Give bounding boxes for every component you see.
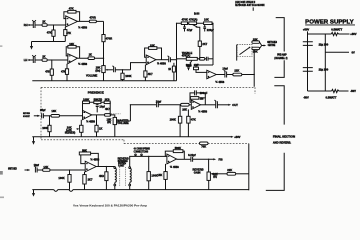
svg-text:1K: 1K (42, 55, 45, 59)
SWITCHES CENTRE label (267, 41, 277, 47)
bias resistor 100K U3b (170, 105, 182, 137)
master volume pot 10K(B) (107, 117, 131, 136)
resistor 4K7 below U2a (144, 65, 153, 81)
resistor 76K on dashed line (200, 142, 209, 149)
feedback resistor 22K U2a (145, 43, 162, 59)
op-amp U1b (1/2 4558) ch2 (68, 54, 88, 66)
reverb transformer coil 1 (114, 167, 116, 190)
svg-text:UNIT: UNIT (118, 164, 125, 168)
bias cap 10uF + resistor 2K7 to op-amp U2b (186, 63, 213, 72)
resistor 100K presence (83, 97, 90, 103)
svg-text:2K7: 2K7 (202, 42, 207, 46)
svg-text:SWITCHED: SWITCHED (8, 169, 17, 171)
resistor 14K reverb input (43, 165, 86, 171)
svg-text:10K: 10K (253, 50, 258, 54)
PSU capacitor pair 1 (303, 42, 313, 46)
junction to reverb gain pot (208, 159, 210, 172)
resistor 47K below op-amp U1a (64, 27, 71, 42)
resistor 47K below op-amp U1b (61, 64, 69, 81)
top rail with dropper resistor (308, 32, 357, 36)
feedback loop wires U3a (83, 102, 111, 115)
dashed left border (40, 87, 42, 140)
driver output wire (96, 166, 115, 168)
svg-text:10K: 10K (204, 18, 209, 22)
resistor 22K reverb mix (227, 168, 249, 175)
svg-text:15K: 15K (157, 173, 162, 177)
resistor 100K to ground (121, 70, 132, 81)
feedback resistor 560K U4b (165, 146, 184, 160)
4-8 OHM SPRING CONNECTIONS label (134, 147, 150, 156)
svg-text:(CHANNEL 2): (CHANNEL 2) (274, 57, 287, 60)
output capacitor U3b (201, 100, 229, 108)
output capacitor 10uF (216, 67, 233, 78)
svg-text:470R: 470R (90, 16, 96, 20)
output capacitor U2a (156, 56, 177, 62)
resistor 4K8 to rail (99, 167, 108, 190)
presence pot 50K(B) (94, 97, 103, 103)
svg-text:-50V: -50V (350, 89, 356, 93)
dashed bottom border right (124, 143, 249, 145)
resistor 18K return (51, 109, 83, 117)
op-amp U2b (1/2 4558) (207, 70, 225, 84)
resistor 10K bass (204, 18, 212, 25)
capacitor after volume wiper (113, 66, 131, 73)
svg-text:47K: 47K (191, 117, 196, 121)
resistor 470R ch1 output (89, 16, 96, 23)
svg-text:½ 4558: ½ 4558 (157, 61, 166, 65)
svg-text:1K: 1K (99, 127, 102, 131)
output wire ch2 with resistor 1K (78, 52, 105, 59)
svg-text:0.5WATT: 0.5WATT (331, 28, 342, 32)
node + resistor 47K to ground (ch2 input) (45, 60, 53, 81)
presence pot lower 10K (65, 120, 83, 137)
feedback resistor 47K ch1 (64, 7, 80, 22)
svg-text:4K8: 4K8 (99, 174, 104, 178)
svg-text:100K: 100K (170, 117, 176, 121)
capacitor 220uF bass (203, 25, 213, 33)
svg-text:22K: 22K (227, 168, 232, 172)
right vertical wire (248, 144, 250, 191)
resistor 470K (181, 18, 188, 25)
resistor 1K ch1 (42, 20, 66, 27)
svg-text:FINAL SECTION: FINAL SECTION (273, 134, 295, 138)
svg-text:KEYBOARD JUST IN AS SHOWN: KEYBOARD JUST IN AS SHOWN (235, 3, 264, 7)
resistor 1K treble NFB (168, 63, 175, 81)
bracket PRE-AMP (CHANNEL 2) (274, 18, 287, 78)
input capacitor 10uF reverb (34, 163, 43, 172)
coupling capacitor 10uF (156, 100, 181, 108)
svg-text:+50V: +50V (303, 28, 309, 32)
svg-text:F/S: F/S (219, 158, 223, 162)
svg-text:100K: 100K (42, 126, 48, 130)
feedback resistor 56K U4a (79, 148, 98, 166)
capacitor 47uF bass (183, 25, 192, 33)
resistor 100K to rail (reverb in) (58, 170, 71, 190)
capacitor C input ch1 (32, 20, 42, 28)
svg-text:25µf: 25µf (40, 108, 45, 112)
svg-text:GAIN: GAIN (194, 170, 201, 174)
svg-text:CENTRE: CENTRE (268, 44, 276, 47)
op-amp U4b (1/2 4558) reverb recovery (167, 154, 179, 169)
svg-text:10µf: 10µf (222, 67, 227, 71)
resistor 2K7 below U4a (83, 172, 93, 190)
presence wiper capacitor 10uF (96, 104, 105, 113)
svg-text:47K: 47K (45, 70, 50, 74)
svg-text:0V: 0V (352, 51, 355, 55)
ground rail ch2 (32, 80, 176, 82)
svg-text:100K: 100K (58, 176, 64, 180)
TREBLE pot (177, 51, 198, 68)
PSU capacitor pair 2 (303, 68, 313, 72)
wire down to mix node (103, 21, 105, 34)
bass pot 47K(A) (189, 18, 199, 28)
resistor 100K to rail (return) (42, 116, 51, 137)
svg-text:0.22µf: 0.22µf (188, 153, 196, 157)
SWITCHED input (8, 169, 30, 172)
output wire ch1 (78, 20, 104, 22)
dashed step (123, 140, 125, 144)
note text ch2 (235, 0, 264, 11)
resistor 15K below U4b (157, 164, 167, 190)
reverb transformer coil 2 (129, 167, 131, 190)
capacitor C input ch2 (32, 55, 42, 63)
svg-text:Vox Venue Keyboard 100 & PA120: Vox Venue Keyboard 100 & PA120/PA200 Pre… (73, 203, 147, 207)
svg-text:½ 4558: ½ 4558 (215, 80, 224, 84)
+50V rail inside box (32, 135, 240, 139)
svg-text:(B): (B) (107, 120, 111, 124)
0V rail (325, 51, 355, 55)
svg-text:RETURN: RETURN (23, 113, 30, 115)
svg-text:LH: LH (24, 58, 28, 62)
left PSU vertical (307, 31, 309, 91)
output resistor 4K7 (92, 107, 111, 116)
node + resistor 47K to ground (ch1 input) (47, 25, 55, 42)
ground wire ch1 (32, 41, 66, 43)
svg-text:4K7: 4K7 (105, 107, 110, 111)
svg-text:10K: 10K (182, 108, 187, 112)
svg-text:SOCKET: SOCKET (23, 116, 30, 118)
bottom rail with dropper resistor (308, 89, 357, 93)
bias resistor 47K U3b (187, 109, 196, 136)
svg-text:(B): (B) (213, 175, 217, 179)
feedback resistor 10K ch2 (66, 42, 79, 58)
OUT arrow (228, 103, 238, 107)
input jack LH (24, 58, 33, 62)
pickup wire to op-amp U4b (130, 156, 167, 167)
op-amp U3b (1/2 4558) (191, 100, 207, 114)
op-amp U1a (1/2 4558) ch1 (66, 16, 88, 29)
svg-text:SERIES): SERIES) (65, 131, 76, 135)
svg-text:1K: 1K (89, 52, 92, 56)
svg-text:47K(A): 47K(A) (189, 18, 198, 22)
wiper arrow to switches centre (260, 42, 267, 48)
output capacitor 0.22uF (177, 153, 214, 162)
op-amp U4a (1/2 4558) reverb driver (85, 157, 100, 172)
svg-text:22µ 200: 22µ 200 (319, 68, 329, 72)
op-amp U2a (1/2 4558) (146, 55, 166, 65)
svg-text:560K: 560K (175, 146, 181, 150)
switch jack dashed box (237, 44, 252, 60)
svg-text:½ 4558: ½ 4558 (86, 119, 95, 123)
middle PSU vertical (324, 34, 326, 91)
svg-text:47µf: 47µf (187, 28, 192, 32)
tone stack left vertical (176, 23, 178, 80)
edge specks (0, 46, 2, 47)
tone stack right vertical (212, 23, 214, 65)
resistor 100K pickup load (147, 156, 158, 189)
resistor 1K ch2 (42, 55, 68, 62)
divider resistor 10K (252, 47, 260, 53)
RETURN SOCKET input (23, 113, 40, 118)
svg-text:½ 4558: ½ 4558 (170, 165, 179, 169)
svg-text:1K: 1K (168, 69, 171, 71)
dashed bottom border left (41, 139, 124, 141)
resistor 470R vertical (mix) (102, 35, 112, 59)
input jack RH (24, 23, 33, 27)
svg-text:½ 4558: ½ 4558 (198, 110, 207, 114)
F/S arrow (213, 158, 223, 162)
svg-text:76K: 76K (201, 145, 206, 149)
svg-text:0.5WATT: 0.5WATT (326, 96, 337, 100)
bass row wire (177, 22, 214, 24)
resistor 1K below output (95, 115, 103, 137)
svg-text:47K: 47K (61, 69, 66, 73)
svg-text:AND REVERB.: AND REVERB. (273, 141, 291, 145)
bottom ground rail reverb (32, 189, 249, 191)
resistor 22K output (233, 69, 254, 76)
dashed top border (41, 86, 255, 88)
svg-text:22µ 200: 22µ 200 (319, 43, 329, 47)
wire hop 1 (54, 190, 58, 192)
spring tank dashed lines (119, 167, 121, 186)
svg-text:2K7: 2K7 (88, 177, 93, 181)
svg-text:470K: 470K (182, 18, 188, 22)
svg-text:4K7: 4K7 (148, 72, 153, 76)
capacitor 25uF return (40, 108, 51, 118)
REVERB GAIN pot 10K(B) (193, 168, 228, 190)
svg-text:½ 4558: ½ 4558 (78, 25, 87, 29)
ground symbol on rail (32, 137, 35, 145)
wire up to divider and down into final section (253, 50, 255, 87)
wire hop 2 (69, 190, 73, 192)
svg-text:1K: 1K (42, 20, 45, 24)
svg-text:+50V: +50V (234, 135, 240, 139)
ground symbol ch1 (30, 42, 33, 50)
svg-text:47K: 47K (66, 31, 71, 35)
resistor 4K7 treble out (197, 57, 213, 61)
dashed link to master volume (111, 113, 121, 115)
dashed right stub (254, 87, 256, 94)
op-amp U3a (1/2 4558) (83, 110, 96, 123)
svg-text:100K: 100K (125, 74, 131, 78)
svg-text:½ 4558: ½ 4558 (78, 62, 87, 66)
resistor 3K9 presence (104, 97, 110, 103)
svg-text:(lin): (lin) (95, 68, 100, 72)
svg-text:18K: 18K (51, 109, 56, 113)
svg-text:PRESENCE: PRESENCE (88, 91, 104, 95)
feedback capacitor 100nF U3b (190, 90, 208, 98)
feedback resistor 1M U3b (190, 97, 205, 105)
divider resistor 15K (252, 37, 260, 43)
REVERB SPRING DRIVE UNIT label (118, 156, 129, 167)
svg-text:-50V: -50V (303, 96, 309, 100)
svg-text:+50V: +50V (350, 32, 356, 36)
volume pot 10K lin (86, 58, 113, 80)
svg-text:CONNECTIONS: CONNECTIONS (134, 149, 149, 153)
svg-text:470R: 470R (106, 37, 112, 41)
svg-text:47K: 47K (47, 30, 52, 34)
POWER SUPPLY title (305, 19, 355, 25)
ground symbol reverb rail (32, 190, 35, 197)
svg-text:BASS: BASS (194, 12, 200, 16)
svg-text:RH: RH (24, 23, 28, 27)
input resistor 10K U3b (181, 103, 192, 111)
wire master wiper to U3b (130, 105, 156, 121)
svg-text:OUT: OUT (232, 103, 238, 107)
svg-text:VOLUME: VOLUME (86, 73, 98, 77)
svg-text:22K: 22K (234, 69, 239, 73)
svg-text:POWER SUPPLY: POWER SUPPLY (305, 19, 354, 25)
bass wiper vertical with resistor 2K7 (198, 27, 208, 59)
wire up to tone op-amp (131, 63, 147, 70)
feedback row wire (83, 101, 111, 103)
